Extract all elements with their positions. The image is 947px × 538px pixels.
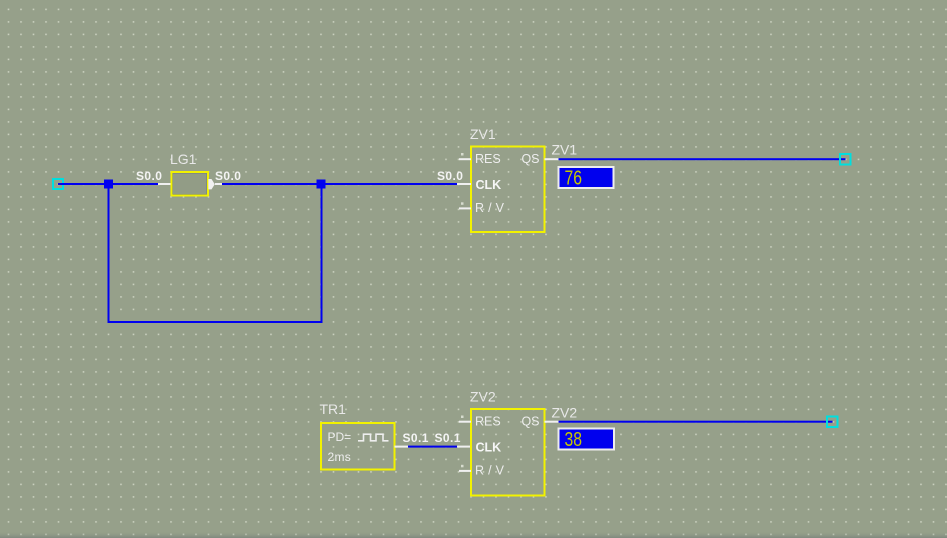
svg-text:ZV1: ZV1 (552, 142, 578, 158)
svg-text:ZV2: ZV2 (552, 405, 578, 421)
svg-text:S0.1: S0.1 (435, 431, 461, 445)
wire: feedback loop left vertical (108, 184, 110, 321)
pin stub ZV2 CLK (457, 446, 471, 448)
svg-text:ZV1: ZV1 (470, 126, 496, 142)
pin stub ZV1 RES (459, 158, 471, 160)
node A (junction at x=108) (104, 180, 113, 189)
timer block ZV2 (470, 389, 545, 496)
wire: ZV1 QS to right terminal (559, 158, 846, 160)
timer block ZV1 (470, 126, 545, 232)
component LG1 (logic block) (170, 151, 208, 196)
pin stub ZV1 R/V (459, 207, 471, 209)
svg-text:R / V: R / V (475, 201, 505, 215)
node B (junction at x=321) (317, 180, 326, 189)
input terminal T1 (left cyan connector) (53, 179, 63, 189)
pin stub ZV2 R/V (459, 470, 471, 472)
svg-text:ZV2: ZV2 (470, 389, 496, 405)
svg-text:76: 76 (565, 168, 583, 190)
svg-text:2ms: 2ms (328, 450, 352, 464)
svg-text:RES: RES (475, 152, 501, 166)
svg-text:S0.0: S0.0 (215, 169, 241, 183)
pin marker ZV2 RES (461, 416, 464, 419)
pin stub LG1 output (215, 183, 222, 185)
svg-text:LG1: LG1 (170, 151, 197, 167)
pulse generator TR1 (320, 401, 395, 470)
wire: feedback loop bottom horizontal (108, 321, 323, 323)
svg-text:38: 38 (565, 429, 583, 451)
svg-text:R / V: R / V (475, 464, 505, 478)
svg-text:S0.0: S0.0 (136, 169, 162, 183)
wire: terminal T1 to LG1 input (58, 183, 158, 185)
LG1 output arrow (208, 179, 215, 189)
output terminal T3 (right cyan connector, bottom) (827, 417, 838, 428)
wire: feedback loop right vertical (321, 184, 323, 323)
pin marker ZV1 RES (461, 153, 464, 156)
pin stub LG1 input (158, 183, 171, 185)
pin stub ZV1 QS (545, 158, 559, 160)
svg-text:QS: QS (521, 415, 539, 429)
svg-text:CLK: CLK (476, 441, 502, 455)
value display ZV2 = 38 (559, 429, 615, 452)
svg-text:S0.0: S0.0 (437, 169, 463, 183)
pin marker ZV2 R/V (461, 465, 464, 468)
pulse waveform glyph (358, 434, 389, 441)
svg-text:CLK: CLK (476, 178, 502, 192)
wire: LG1 output to ZV1 CLK (222, 183, 457, 185)
pin stub TR1 output (395, 446, 409, 448)
pin stub ZV2 QS (545, 421, 559, 423)
svg-text:S0.1: S0.1 (403, 431, 429, 445)
value display ZV1 = 76 (559, 167, 614, 190)
pin stub ZV2 RES (459, 421, 471, 423)
pin stub ZV1 CLK (457, 183, 471, 185)
svg-text:RES: RES (475, 415, 501, 429)
svg-text:QS: QS (521, 152, 539, 166)
svg-text:PD=: PD= (328, 430, 352, 444)
pin marker ZV1 R/V (461, 202, 464, 205)
wire: ZV2 QS to right terminal (559, 421, 833, 423)
wire: TR1 to ZV2 CLK (408, 446, 458, 448)
svg-text:TR1: TR1 (320, 401, 347, 417)
output terminal T2 (right cyan connector, top) (840, 154, 851, 165)
